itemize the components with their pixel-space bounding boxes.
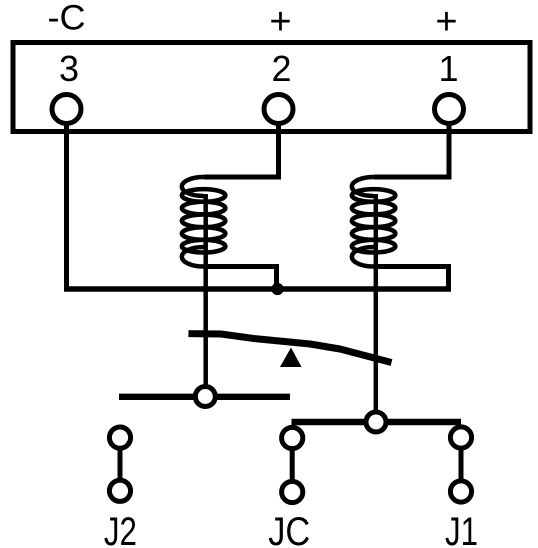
wire common bus	[64, 286, 451, 292]
terminal 2 circle	[264, 95, 293, 124]
wire terminal 2 to left coil top	[204, 109, 279, 177]
pin J1 lower circle	[450, 481, 471, 502]
right contact bar	[292, 419, 462, 425]
pin J2 lower circle	[109, 480, 130, 501]
pin JC lower circle	[282, 481, 303, 502]
svg-text:-C: -C	[48, 0, 86, 38]
terminal 3 circle	[52, 95, 81, 124]
pin J2 link	[118, 438, 123, 491]
pin J2 upper circle	[109, 427, 130, 448]
svg-text:J2: J2	[104, 510, 137, 548]
left contact bar	[119, 394, 290, 400]
movable contact circle	[366, 412, 386, 432]
svg-text:J1: J1	[445, 510, 478, 548]
wire left coil bottom to bus	[204, 267, 277, 290]
armature arm	[188, 334, 391, 363]
wire terminal 3 drop	[64, 109, 69, 291]
wire terminal 1 to right coil top	[374, 109, 449, 177]
svg-text:3: 3	[59, 48, 79, 89]
relay coil L1 (left)	[182, 177, 226, 267]
svg-text:+: +	[269, 1, 291, 43]
terminal 1 circle	[435, 95, 464, 124]
terminal block outline	[13, 43, 530, 132]
svg-text:+: +	[435, 1, 457, 43]
junction dot	[271, 283, 283, 295]
pin J1 link	[459, 438, 464, 492]
left coil core wire to armature pivot	[203, 194, 208, 398]
pin JC upper circle	[282, 427, 303, 448]
relay coil L2 (right)	[352, 177, 396, 267]
right coil core wire to movable contact	[374, 194, 379, 424]
actuator triangle	[280, 348, 302, 368]
pin J1 upper circle	[450, 427, 471, 448]
armature pivot contact circle	[195, 387, 215, 407]
svg-text:1: 1	[438, 48, 458, 89]
svg-text:2: 2	[271, 48, 291, 89]
wire right coil bottom to bus	[374, 267, 449, 290]
svg-text:JC: JC	[268, 510, 310, 548]
pin JC link	[290, 438, 295, 492]
